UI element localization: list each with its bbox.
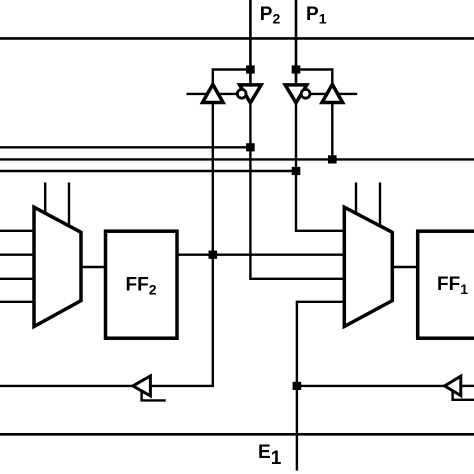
feedback buffer U5 (left, points left) [133, 376, 151, 396]
wire: P2 node to output driver U1 [213, 70, 251, 89]
wire: P1 node to output driver U4 [296, 70, 332, 89]
wire: enable stub of buffer U6 [453, 391, 474, 400]
junction bus3 / U3 output [292, 167, 301, 175]
wire: right mux select 2 [379, 183, 381, 229]
multiplexer MUX1 (right) [344, 207, 392, 326]
wire: left mux select 2 [68, 183, 70, 229]
wire: left mux input 3 [0, 278, 34, 280]
junction node E1 / buffer U6 [293, 382, 302, 390]
tri-state input receiver U3 (P1, down triangle) [285, 85, 307, 103]
bus line 2 [0, 158, 474, 160]
wire: left mux input 4 [0, 301, 34, 303]
wire: driver U1 input down to buffer U5 input [151, 102, 213, 386]
wire: E1 net from right mux input 4 down to bottom [297, 302, 344, 471]
wire: left mux select 1 [44, 183, 46, 217]
pad line P2 [249, 0, 252, 87]
tri-state input receiver U2 (P2, down triangle) [240, 85, 262, 103]
bus line 3 [0, 170, 296, 172]
inversion bubble of receiver U3 [301, 89, 310, 98]
wire: enable of U1/U2 (left stub through driver to bubble) [187, 93, 242, 95]
wire: receiver U2 output down to right mux input 3 [250, 100, 344, 279]
wire: left mux input 1 [0, 230, 34, 232]
tri-state output driver U1 (P2, up triangle) [203, 84, 224, 102]
wire: enable of U3/U4 (bubble through driver to right stub) [305, 93, 357, 95]
wire: enable stub of buffer U5 [142, 391, 166, 401]
bottom pad bus line [0, 433, 474, 436]
feedback buffer U6 (right, points left) [445, 376, 461, 395]
bus line 1 [0, 146, 250, 148]
flip-flop FF2 box [106, 231, 178, 338]
junction bus1 / U2 output [246, 143, 255, 151]
wire: node E1 to buffer U6 output [297, 385, 446, 387]
wire: buffer U6 input from right edge [461, 385, 474, 387]
inversion bubble of receiver U2 [237, 89, 246, 98]
wire: right mux select 1 [355, 183, 357, 217]
wire: FF2 output to node A and right mux input 2 [176, 253, 344, 255]
junction node A (FF2 out / U1 in) [209, 251, 218, 259]
junction on P1 line [292, 65, 301, 73]
wire: left mux output to FF2 [81, 266, 107, 268]
junction bus2 / U4 input [328, 155, 337, 163]
multiplexer MUX2 (left) [34, 207, 81, 326]
wire: buffer U5 output to left edge [0, 385, 134, 387]
pad line P1 [295, 0, 298, 87]
wire: receiver U3 output down to right mux input 1 [296, 100, 344, 231]
top pad bus line [0, 37, 474, 40]
wire: driver U4 input from bus line 2 [331, 102, 333, 159]
flip-flop FF1 box (cut off at right edge) [418, 231, 474, 338]
wire: left mux input 2 [0, 253, 34, 255]
wire: right mux output to FF1 [392, 266, 418, 268]
junction on P2 line [246, 65, 255, 73]
tri-state output driver U4 (P1, up triangle) [322, 84, 343, 102]
